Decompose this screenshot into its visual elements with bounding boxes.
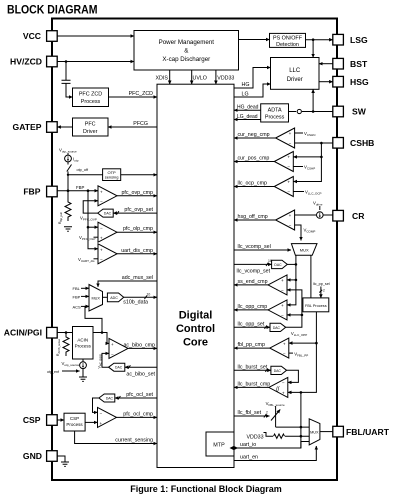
svg-text:−: − [100,411,103,416]
svg-text:FBL: FBL [73,286,81,291]
OTP sensing block [103,169,121,181]
wire ss_end_cmp output [234,279,268,285]
CSP process block [64,413,85,431]
wire vcomp net [287,255,297,305]
pin GATEP [13,122,58,133]
svg-text:ss_end_cmp: ss_end_cmp [238,279,268,285]
svg-text:HSG: HSG [350,77,369,87]
wire llc_opp reference net [286,290,308,337]
svg-text:Iotp: Iotp [73,157,79,163]
wire XDIS [156,70,170,84]
svg-text:FBL/UART: FBL/UART [346,427,390,437]
svg-text:VPFC_OLP: VPFC_OLP [79,235,96,241]
comparator llc_burst_cmp [269,377,288,397]
svg-text:Core: Core [183,337,208,349]
wire fbl_pp_cmp output [234,342,270,348]
svg-text:pfc_ovp_cmp: pfc_ovp_cmp [121,190,153,196]
svg-text:BST: BST [350,59,368,69]
svg-text:DAC: DAC [273,326,281,330]
comparator cur_pos_cmp [274,152,293,172]
svg-text:MUX: MUX [310,431,319,435]
wire HG [234,68,271,89]
wire SW net with bubble [289,89,333,113]
svg-text:PFC: PFC [85,122,96,128]
ground under Rfbp_pull [64,227,72,231]
label Vuart_dis stub [78,257,98,263]
wire mux to ADC [103,296,108,298]
svg-text:2: 2 [266,410,268,414]
svg-text:−: − [289,141,292,146]
wire current_sensing [75,431,157,444]
svg-text:LG: LG [242,92,249,98]
wire pfc_ovp_set [113,207,157,215]
svg-text:VFBL_PP: VFBL_PP [294,352,308,358]
svg-text:CSP: CSP [23,415,41,425]
svg-text:X-cap Discharger: X-cap Discharger [162,56,210,63]
wire LG_dead [234,114,261,120]
svg-text:−: − [282,381,285,386]
svg-text:CSHB: CSHB [350,138,374,148]
wire uart_dis_cmp output [117,248,157,254]
svg-text:2: 2 [323,289,325,293]
svg-text:HG: HG [242,82,250,88]
svg-text:Process: Process [81,99,101,105]
svg-text:llc_ocp_cmp: llc_ocp_cmp [238,181,267,187]
wire DAC to pfc_ovp_cmp minus [80,201,98,222]
svg-text:VUART_dis: VUART_dis [78,257,95,263]
wire HV/ZCD to power management [57,61,134,63]
resistor VDD33 [247,433,310,441]
svg-text:VLLC_OPP: VLLC_OPP [291,331,307,337]
node HV/ZCD branch [65,60,68,63]
wire pfc_ocl_cmp output [117,411,158,417]
digital control core U-DCC [157,84,234,467]
svg-text:Votp_source: Votp_source [59,148,77,154]
DAC llc_vcomp [272,260,288,268]
svg-text:cur_neg_cmp: cur_neg_cmp [238,132,270,138]
wire DAC to ac_bibo_cmp minus [98,353,110,368]
wire FBP net [57,185,98,192]
svg-text:pfc_olp_cmp: pfc_olp_cmp [123,226,153,232]
wire otp to OTP sensing [68,174,103,176]
wire cur_pos_cmp output [234,156,274,162]
mux vcomp [291,244,317,256]
svg-text:−: − [281,313,284,318]
svg-text:−: − [100,226,103,231]
wire pfc_ocl_set [115,392,157,400]
LLC driver block [271,58,320,90]
svg-text:current_sensing: current_sensing [115,438,153,444]
wire otp node to FBP [67,172,70,193]
comparator pfc_ovp_cmp [98,186,117,206]
wire s10b_data [123,292,157,305]
wire PFC driver to GATEP [57,126,72,128]
resistor Rfbp_pull [58,191,71,224]
svg-text:DAC: DAC [274,369,282,373]
svg-text:MUX: MUX [300,248,309,253]
wire llc_burst_set [234,364,271,372]
pin ACIN/PGI [4,327,57,338]
node FBP branch olp [87,226,90,229]
pin VCC [23,31,57,42]
svg-text:VLLC_OCP: VLLC_OCP [305,190,322,196]
wire OTP sensing to core [121,174,157,176]
label Vcshn stub [295,131,316,137]
capacitor C1 [62,62,71,98]
wire FBL process output net [288,312,318,393]
svg-text:−: − [111,352,114,357]
wire CR net with current source [295,201,333,219]
svg-text:Process: Process [265,115,285,121]
wire DAC to llc_burst minus [287,370,299,382]
wire hsg_off_cmp output [234,214,276,220]
comparator fbl_pp_cmp [270,338,289,358]
svg-text:Driver: Driver [287,77,303,83]
svg-text:llc_vcomp_set: llc_vcomp_set [237,269,271,275]
wire FBL into mux [73,286,90,291]
svg-text:cur_pos_cmp: cur_pos_cmp [238,156,270,162]
comparator ac_bibo_cmp [109,338,128,358]
svg-text:VCOMP: VCOMP [304,228,316,234]
svg-text:uart_io: uart_io [240,442,256,448]
current source Iotp [65,153,79,163]
resistor Racin_sense [56,333,69,357]
svg-text:CSP: CSP [70,416,79,421]
svg-text:−: − [100,199,103,204]
ground under otp_enf source [79,369,87,382]
svg-text:DAC: DAC [106,397,114,401]
mux FBL/UART [309,419,320,445]
wire PM to PS detection [239,39,270,41]
svg-text:ac_bibo_set: ac_bibo_set [126,372,155,378]
wire ac_bibo_cmp output [123,342,157,348]
wire pfc_olp_cmp output [117,226,157,232]
PFC ZCD process block [73,88,109,107]
node llc_burst plus net [300,391,303,394]
wire PFCG [108,121,157,127]
svg-text:+: + [283,341,286,346]
svg-text:+: + [100,421,103,426]
wire llc_vcomp_sel [234,244,291,250]
svg-text:FBL Process: FBL Process [305,304,327,308]
svg-text:−: − [100,257,103,262]
svg-text:DAC: DAC [104,212,112,216]
wire UVLO [192,70,207,84]
svg-text:CR: CR [352,211,365,221]
comparator cur_neg_cmp [276,128,295,148]
wire ACS routing from ACIN out [85,306,102,332]
wire vcomp mux right input [310,255,312,298]
svg-text:UVLO: UVLO [193,76,207,82]
svg-text:s10b_data: s10b_data [123,300,148,306]
svg-text:RACIN_sense: RACIN_sense [56,338,61,356]
comparator ss_end_cmp [268,275,287,295]
wire FBP branch down [88,191,98,249]
svg-text:VDD33: VDD33 [217,76,234,82]
svg-text:VCSHP: VCSHP [304,165,315,171]
svg-text:MTP: MTP [213,442,225,448]
svg-text:PFC_ZCD: PFC_ZCD [129,91,154,97]
pin SW [333,106,367,117]
svg-text:−: − [287,190,290,195]
svg-text:pfc_ocl_set: pfc_ocl_set [126,392,153,398]
svg-text:ADC: ADC [110,296,118,300]
svg-text:llc_opp_set: llc_opp_set [238,321,265,327]
svg-text:ACIN: ACIN [77,338,88,343]
svg-text:GATEP: GATEP [13,122,42,132]
label Vcshp stub [293,165,315,171]
wire ac_bibo_set [125,365,157,377]
svg-text:+: + [111,342,114,347]
wire llc_burst_cmp output [234,381,270,387]
wire DAC to pfc_ocl_cmp minus [93,398,99,412]
comparator llc_ocp_cmp [274,177,293,197]
wire VDD33 [216,70,235,84]
svg-text:+: + [100,236,103,241]
svg-text:+: + [289,213,292,218]
ACIN process block [73,327,94,360]
svg-text:+: + [281,303,284,308]
svg-text:fbl_pp_cmp: fbl_pp_cmp [238,342,265,348]
svg-text:PS ON/OFF: PS ON/OFF [273,36,303,42]
svg-text:Control: Control [176,323,215,335]
wire llc_opp_cmp output [234,304,268,310]
svg-text:uart_en: uart_en [240,455,258,461]
wire llc_fbl_set [234,410,270,418]
power management block [134,31,239,71]
svg-text:hsg_off_cmp: hsg_off_cmp [238,214,268,220]
svg-text:FBP: FBP [73,294,81,299]
DAC llc_burst [271,366,287,374]
svg-text:XDIS: XDIS [156,76,169,82]
ground at GND pin [57,456,69,466]
pin CSP [23,415,57,426]
pin GND [23,451,57,462]
svg-text:llc_opp_cmp: llc_opp_cmp [238,304,268,310]
svg-text:BLOCK DIAGRAM: BLOCK DIAGRAM [7,5,98,17]
PFC driver block [73,118,109,136]
svg-text:sensing: sensing [105,175,119,180]
pin FBP [23,186,57,197]
wire BST to LLC driver [319,63,333,65]
svg-text:otp_enf: otp_enf [47,370,59,374]
svg-text:+: + [289,131,292,136]
wire CSP pin to CSP process [57,419,64,421]
svg-text:LSG: LSG [350,35,368,45]
wire PFC_ZCD [109,91,158,97]
svg-text:VAC_BIBO: VAC_BIBO [98,353,103,368]
svg-text:Figure 1: Functional Block Dia: Figure 1: Functional Block Diagram [130,484,282,494]
svg-text:+: + [282,391,285,396]
wire CSP process to pfc_ocl_cmp plus [85,421,97,423]
wire FBP into mux [73,294,90,299]
svg-text:DAC: DAC [274,263,282,267]
svg-text:DAC: DAC [115,366,123,370]
svg-text:GND: GND [23,451,42,461]
pin LSG [333,34,368,45]
wire branch to olp minus [88,226,98,228]
comparator pfc_olp_cmp [98,222,117,242]
svg-text:Process: Process [66,422,83,427]
svg-text:−: − [281,288,284,293]
wire llc_opp_set [234,321,270,329]
svg-text:Digital: Digital [179,310,213,322]
svg-text:+: + [100,247,103,252]
svg-text:16: 16 [268,259,272,263]
label Vpfc_olp stub [79,235,98,241]
svg-text:llc_burst_cmp: llc_burst_cmp [238,381,271,387]
svg-text:ac_bibo_cmp: ac_bibo_cmp [123,342,155,348]
wire adc_mux_sel [98,275,157,287]
switch otp_off [67,162,89,172]
chip outline [52,19,337,481]
svg-text:PFCG: PFCG [133,121,148,127]
current source otp_enf [47,359,86,374]
DAC pfc_ovp [98,209,114,217]
wire HSG from LLC driver [319,81,333,83]
DAC ac_bibo [109,363,125,371]
svg-text:FBP: FBP [76,185,84,190]
svg-text:llc_vcomp_sel: llc_vcomp_sel [238,244,271,250]
svg-text:VCSHN: VCSHN [304,131,315,137]
wire LG [234,84,271,98]
svg-text:pfc_ovp_set: pfc_ovp_set [124,207,153,213]
wire llc_ocp_cmp output [234,181,274,187]
comparator pfc_ocl_cmp [98,407,117,427]
mux ADC input [89,285,103,312]
svg-text:HG_dead: HG_dead [237,105,259,111]
wire fbl net vertical [300,392,303,448]
svg-text:Rfbp_pull: Rfbp_pull [58,212,63,224]
wire llc_vcomp_set [234,259,272,275]
svg-text:Votp_source: Votp_source [62,361,80,367]
ADTA process block [261,104,289,122]
svg-text:−: − [283,351,286,356]
pin FBL/UART [333,426,390,437]
label Vllc_ocp stub [293,190,321,196]
wire ACS into mux [73,304,90,309]
svg-text:LLC: LLC [289,68,301,74]
svg-text:MUX: MUX [91,297,100,301]
svg-text:uart_dis_cmp: uart_dis_cmp [121,248,153,254]
svg-text:−: − [289,223,292,228]
svg-text:Process: Process [75,344,92,349]
wire uart_en [234,446,316,461]
svg-text:HV/ZCD: HV/ZCD [10,57,42,67]
wire LSG net [306,38,333,57]
pin CSHB [333,138,375,149]
wire VCC to power management [57,35,134,37]
svg-text:Detection: Detection [276,42,299,48]
svg-text:PFC ZCD: PFC ZCD [79,92,102,98]
svg-text:LG_dead: LG_dead [237,114,258,120]
svg-text:llc_fbl_set: llc_fbl_set [238,410,262,416]
label Vfbl_pp stub [289,352,308,358]
wire uart_io bidirectional [230,442,310,451]
controlled source fbl [271,406,280,427]
svg-text:10: 10 [147,292,151,296]
svg-text:+: + [100,189,103,194]
MTP block [206,432,234,456]
pin BST [333,58,368,69]
svg-text:ACS: ACS [73,304,82,309]
svg-text:Power Management: Power Management [159,39,215,46]
svg-text:llc_pp_sel: llc_pp_sel [313,282,330,286]
comparator hsg_off_cmp [276,210,295,230]
svg-text:llc_burst_set: llc_burst_set [238,364,268,370]
wire pfc_ovp_cmp output [117,190,157,196]
svg-text:pfc_ocl_cmp: pfc_ocl_cmp [123,411,153,417]
wire fbl source to mux [276,426,310,429]
svg-text:Driver: Driver [83,129,98,135]
wire CSHB net [293,142,333,182]
pin HSG [333,76,369,87]
wire llc_pp_sel [313,282,330,298]
DAC pfc_ocl [99,394,115,402]
svg-text:ADTA: ADTA [268,107,282,113]
wire hsg_off minus to vcomp mux [295,225,316,241]
wire cap to PFC ZCD process [66,96,73,98]
pin HV/ZCD [10,56,57,67]
svg-text:+: + [287,180,290,185]
wire cur_neg_cmp output [234,132,276,138]
wire ACIN/PGI net [57,331,72,334]
svg-text:Vdrive: Vdrive [313,201,323,207]
FBL process block [303,298,329,312]
svg-text:ACIN/PGI: ACIN/PGI [4,328,42,338]
svg-text:otp_off: otp_off [77,168,89,172]
pin CR [333,210,365,221]
svg-text:SW: SW [352,107,367,117]
svg-text:VCC: VCC [23,31,41,41]
svg-text:+: + [287,155,290,160]
ADC block [107,293,123,302]
svg-text:VDD33: VDD33 [247,434,264,440]
wire mux to FBL/UART pin [320,431,333,433]
wire ACIN out to comparator [93,331,109,343]
comparator uart_dis_cmp [98,244,117,264]
PS ON/OFF detection block [270,33,306,47]
svg-text:FBP: FBP [23,187,40,197]
svg-text:+: + [281,278,284,283]
comparator llc_opp_cmp [268,300,287,320]
svg-text:−: − [287,165,290,170]
wire HG_dead [234,105,261,111]
svg-text:adc_mux_sel: adc_mux_sel [122,275,153,281]
DAC llc_opp [270,323,286,331]
